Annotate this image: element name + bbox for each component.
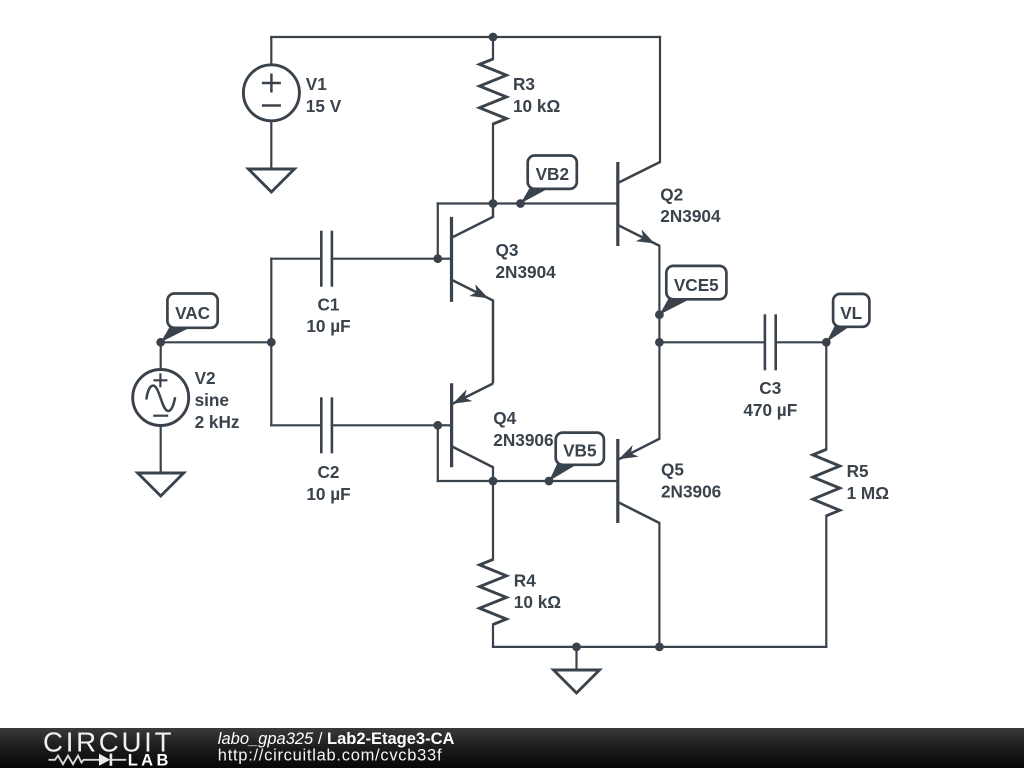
- svg-text:2 kHz: 2 kHz: [195, 412, 240, 432]
- Q5 label: [661, 460, 721, 502]
- svg-text:10 kΩ: 10 kΩ: [514, 592, 561, 612]
- svg-text:R4: R4: [514, 570, 536, 590]
- C2 value label: [306, 462, 350, 504]
- node VL dot: [822, 338, 831, 347]
- wire C2 left lead: [271, 424, 321, 426]
- logo resistor squiggle: [49, 756, 100, 765]
- svg-text:C3: C3: [759, 378, 781, 398]
- transistor Q5: [618, 439, 660, 523]
- V2 value label: [195, 368, 240, 432]
- node label VB5: [549, 433, 604, 481]
- svg-text:1 MΩ: 1 MΩ: [847, 483, 890, 503]
- R3 value label: [513, 74, 560, 116]
- node junction Q4 collector / VB5 bus: [489, 477, 498, 486]
- svg-text:VL: VL: [840, 303, 862, 323]
- wire Q5 collector vertical: [658, 523, 660, 647]
- svg-text:V1: V1: [306, 74, 327, 94]
- R5 value label: [847, 461, 890, 503]
- wire V1 bottom stub: [270, 121, 272, 169]
- wire VB5 base bus to Q5: [438, 480, 618, 482]
- R4 value label: [514, 570, 561, 612]
- svg-text:VCE5: VCE5: [674, 275, 719, 295]
- wire VAC to input bus: [161, 341, 272, 343]
- resistor R3: [480, 59, 507, 124]
- node Q3 base: [433, 254, 442, 263]
- ground (bottom rail): [554, 670, 600, 693]
- Q2 label: [660, 184, 721, 226]
- svg-text:Q4: Q4: [493, 408, 516, 428]
- capacitor C1: [321, 231, 332, 287]
- wire top rail: [271, 36, 660, 38]
- svg-text:10 kΩ: 10 kΩ: [513, 96, 560, 116]
- svg-text:2N3906: 2N3906: [661, 481, 721, 501]
- svg-text:R3: R3: [513, 74, 535, 94]
- footer bar: [0, 728, 1024, 768]
- svg-text:LAB: LAB: [128, 751, 172, 768]
- svg-text:Q2: Q2: [660, 184, 683, 204]
- wire C2 right lead: [332, 424, 438, 426]
- wire Q4 collector to R4: [492, 467, 494, 559]
- wire V2 top stub: [160, 342, 162, 369]
- wire R4 bottom lead: [492, 625, 494, 647]
- wire R3 bottom lead: [492, 124, 494, 204]
- svg-text:C2: C2: [318, 462, 340, 482]
- node label VAC: [161, 294, 218, 343]
- C3 value label: [743, 378, 797, 420]
- node junction ground dot: [572, 643, 581, 652]
- resistor R5: [813, 449, 840, 515]
- capacitor C3: [765, 314, 776, 370]
- svg-text:http://circuitlab.com/cvcb33f: http://circuitlab.com/cvcb33f: [218, 747, 442, 765]
- transistor Q3: [438, 204, 493, 384]
- resistor R4: [480, 560, 507, 625]
- node VCE5 dot: [655, 310, 664, 319]
- node label VL: [826, 294, 869, 342]
- svg-text:R5: R5: [847, 461, 869, 481]
- node Q4 base: [433, 421, 442, 430]
- wire R3 top lead: [492, 37, 494, 59]
- node VB2 dot: [516, 199, 525, 208]
- node junction Q5 collector bottom: [655, 643, 664, 652]
- wire vertical C1-C2 input bus: [270, 259, 272, 426]
- svg-text:VAC: VAC: [175, 303, 210, 323]
- svg-text:labo_gpa325 / Lab2-Etage3-CA: labo_gpa325 / Lab2-Etage3-CA: [218, 730, 455, 748]
- svg-text:2N3904: 2N3904: [660, 206, 721, 226]
- wire V2 bottom stub: [160, 426, 162, 474]
- wire R5 bottom lead: [825, 516, 827, 647]
- wire Q2 collector to top rail: [659, 37, 661, 162]
- wire C1 left lead: [271, 258, 321, 260]
- svg-text:10 µF: 10 µF: [306, 316, 350, 336]
- node junction input bus: [267, 338, 276, 347]
- wire ground stub bottom: [575, 647, 577, 670]
- node junction top rail / R3: [489, 33, 498, 42]
- wire Q4 base node down: [437, 425, 439, 481]
- Q4 label: [493, 408, 553, 450]
- ground (V2): [138, 473, 184, 496]
- svg-text:10 µF: 10 µF: [306, 484, 350, 504]
- node VB5 dot: [545, 477, 554, 486]
- node junction R3 / Q3 collector / base bus: [489, 199, 498, 208]
- svg-text:Q3: Q3: [496, 240, 519, 260]
- transistor Q4: [438, 383, 493, 467]
- voltage source V1: [243, 65, 299, 121]
- svg-text:2N3906: 2N3906: [493, 430, 553, 450]
- wire C3 to VL: [776, 341, 827, 343]
- svg-text:2N3904: 2N3904: [496, 262, 557, 282]
- wire VB2 base bus to Q2: [438, 202, 618, 204]
- svg-text:C1: C1: [318, 294, 340, 314]
- V1 value label: [306, 74, 342, 116]
- ground (V1): [248, 169, 294, 192]
- voltage source V2 (sine): [133, 370, 189, 426]
- logo diode: [99, 754, 126, 766]
- Q3 label: [496, 240, 557, 282]
- svg-text:VB5: VB5: [563, 440, 597, 460]
- wire Q2 emitter vertical to Q5 emitter: [658, 246, 660, 439]
- svg-text:470 µF: 470 µF: [743, 400, 797, 420]
- wire left vertical to Q3 base node: [437, 204, 439, 259]
- svg-text:15 V: 15 V: [306, 96, 342, 116]
- transistor Q2: [618, 162, 660, 246]
- node junction output: [655, 338, 664, 347]
- wire C1 right lead: [332, 258, 438, 260]
- node VAC dot: [156, 338, 165, 347]
- svg-text:V2: V2: [195, 368, 216, 388]
- wire VL down to R5: [825, 342, 827, 449]
- svg-text:VB2: VB2: [536, 164, 569, 184]
- svg-text:sine: sine: [195, 390, 229, 410]
- svg-text:Q5: Q5: [661, 460, 684, 480]
- wire V1 top stub: [270, 37, 272, 65]
- C1 value label: [306, 294, 350, 336]
- wire VCE5 node to C3: [659, 341, 765, 343]
- node label VB2: [521, 156, 577, 204]
- capacitor C2: [321, 397, 332, 453]
- wire bottom rail: [493, 646, 826, 648]
- node label VCE5: [659, 266, 726, 315]
